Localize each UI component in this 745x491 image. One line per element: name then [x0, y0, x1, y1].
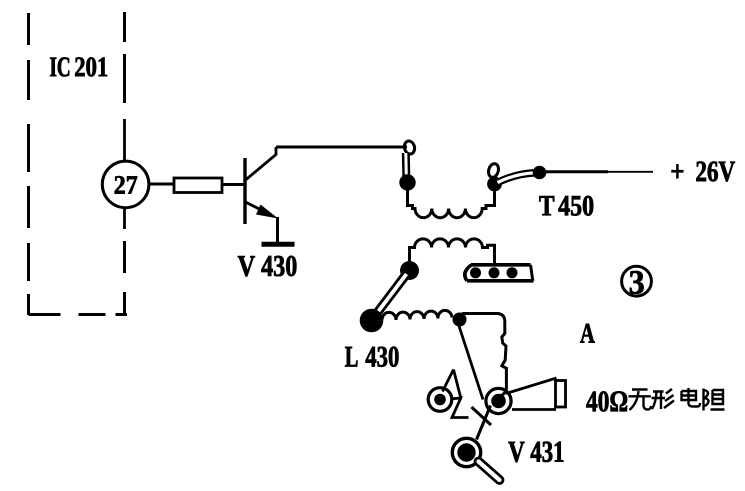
wire pin27 top: [123, 119, 126, 161]
wire pin27 to resistor: [148, 183, 174, 186]
horn shape to 40ohm resistor: [506, 378, 557, 410]
junction dot primary left: [399, 174, 415, 190]
IC201 dashed box bottom side: [29, 313, 128, 316]
transistor V430 emitter lead: [276, 217, 279, 242]
resistor 40ohm: [556, 381, 566, 408]
pen annotation loop at collector wire end: [403, 140, 416, 176]
ground: [262, 242, 295, 247]
label wu xing dian zu (CJK): [629, 388, 725, 411]
wire resistor to base: [222, 183, 244, 186]
IC201 dashed box right side lower: [123, 241, 126, 315]
wire to +26V: [540, 170, 609, 173]
diagonal wire junction to collector blob: [459, 325, 484, 400]
label V430: [238, 256, 297, 277]
junction dot L430 right: [453, 313, 467, 327]
break X mark: [472, 407, 492, 425]
collector wire to transformer: [276, 146, 407, 149]
label 40 ohm value: [586, 391, 627, 411]
label IC201: [50, 57, 107, 76]
terminal circle left of V431: [428, 388, 452, 412]
label T450: [539, 196, 593, 216]
wire collector blob to V431 body: [477, 406, 491, 440]
transformer T450 secondary winding: [410, 239, 495, 265]
label +26V: [672, 162, 735, 182]
pin circle 27: [102, 161, 149, 208]
junction dot primary right: [487, 177, 502, 192]
L430 left terminal blob: [360, 309, 384, 333]
pen annotation stroke secondary to L430: [374, 274, 407, 317]
label L430: [345, 347, 398, 367]
transistor body blob V431: [452, 438, 480, 466]
transistor V430 emitter arrow: [256, 205, 278, 219]
IC201 dashed box right side upper: [123, 12, 126, 103]
transistor V430 collector: [246, 147, 277, 180]
inductor L430 winding: [382, 310, 452, 320]
label node A: [580, 324, 595, 343]
label V431: [508, 442, 563, 463]
circled number 3: [622, 266, 652, 296]
pen annotation loop at primary right: [487, 162, 536, 182]
arrow triangle of V431: [443, 370, 469, 418]
junction dot on +26V wire: [533, 166, 547, 180]
pen annotation handle stroke: [479, 462, 500, 481]
transistor V430 emitter: [246, 202, 267, 213]
IC201 dashed box left side: [27, 13, 30, 315]
wire pin27 bottom: [123, 208, 126, 229]
transistor V430 base bar: [243, 158, 246, 224]
hand-drawn wire outline right of L430: [460, 314, 507, 397]
transformer T450 primary winding: [408, 189, 495, 218]
junction dot secondary left: [400, 261, 419, 280]
hand-drawn core winding blob: [465, 265, 534, 281]
collector blob circle of V431: [486, 388, 511, 413]
base resistor: [174, 178, 222, 193]
